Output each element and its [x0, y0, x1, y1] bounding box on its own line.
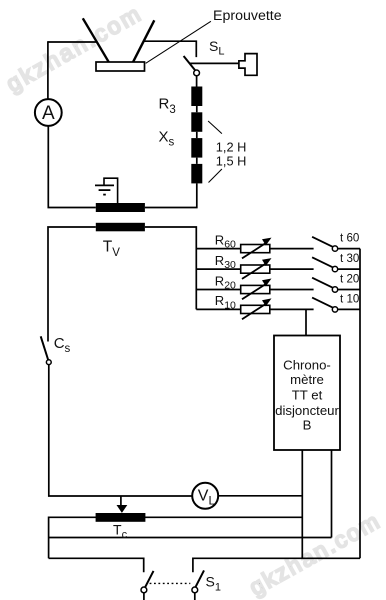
svg-text:1,2 H: 1,2 H — [216, 139, 247, 154]
svg-text:Eprouvette: Eprouvette — [213, 8, 282, 24]
svg-text:B: B — [303, 417, 312, 432]
svg-text:TT et: TT et — [292, 387, 323, 402]
svg-text:t 20: t 20 — [340, 273, 359, 286]
svg-text:t 10: t 10 — [340, 293, 359, 306]
svg-text:t 30: t 30 — [340, 252, 359, 265]
svg-text:disjoncteur: disjoncteur — [275, 403, 339, 418]
svg-text:A: A — [42, 103, 55, 124]
svg-text:t 60: t 60 — [340, 232, 359, 245]
svg-text:mètre: mètre — [290, 372, 324, 387]
svg-text:1,5 H: 1,5 H — [216, 154, 247, 169]
svg-text:Chrono-: Chrono- — [283, 357, 331, 372]
